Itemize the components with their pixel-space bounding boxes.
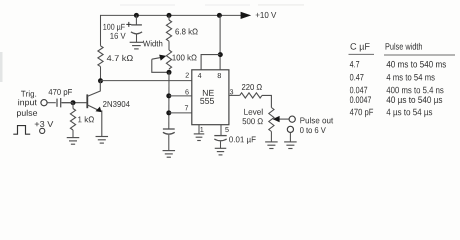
label 2N3904	[103, 101, 130, 107]
wire: rail to 6.8k	[168, 15, 170, 20]
wire: left column from rail to 4.7k	[100, 15, 102, 46]
ground under return terminal	[284, 142, 297, 149]
label NE	[203, 90, 214, 96]
capacitor C2 timing cap C	[163, 129, 175, 150]
transistor Q1 2N3904	[61, 81, 102, 136]
label Level	[244, 109, 262, 115]
trigger pulse waveform icon	[13, 126, 30, 135]
label 16 V	[110, 33, 125, 39]
table header Pulse width	[386, 43, 422, 50]
table header C µF	[351, 43, 370, 51]
wire: jog to pin 4	[201, 55, 220, 70]
capacitor C4 0.01uF on pin 5	[214, 136, 226, 148]
wire: wiper return loop to pot bottom	[152, 59, 169, 72]
label 100 kΩ	[172, 54, 196, 60]
table row 0.047	[350, 87, 444, 94]
label 0.01 µF	[229, 136, 256, 144]
pin label 2	[186, 73, 189, 78]
potentiometer R3 100 kΩ body	[166, 50, 171, 69]
label 0 to 6 V	[300, 127, 326, 133]
label 4.7 kΩ	[107, 55, 133, 61]
ground under timing cap C	[163, 151, 176, 158]
resistor R1 4.7 kΩ	[98, 46, 103, 67]
junction dot on rail at 6.8k branch	[167, 13, 172, 18]
wire: pin 6 lead	[169, 95, 192, 97]
ground under 0.01uF	[215, 148, 227, 155]
label 220 Ω	[242, 84, 262, 90]
pin label 5	[225, 127, 228, 132]
wire: return terminal to ground	[289, 133, 291, 142]
label Trig.	[21, 91, 36, 99]
node dot at pin 7 tap	[166, 110, 171, 115]
label 1 kΩ	[78, 116, 94, 122]
wire: level pot to ground	[270, 132, 272, 142]
pin label 8	[218, 73, 221, 78]
node dot: base junction	[71, 100, 76, 105]
terminal circle under +3V	[40, 128, 45, 133]
wire: 220 to level pot	[262, 95, 271, 107]
wire: pin 5 stem	[220, 125, 222, 136]
label input	[18, 99, 37, 107]
pin label 3	[230, 89, 233, 94]
wire: pin 7 lead	[169, 112, 192, 114]
node dot at pin 6 tap	[166, 93, 171, 98]
pin label 6	[185, 89, 188, 94]
pin label 4	[198, 73, 202, 78]
junction dot on rail at 100uF branch	[134, 13, 139, 18]
wire: +10V supply rail	[101, 14, 243, 16]
ground under pin 1	[194, 134, 205, 141]
table header underline right	[384, 54, 455, 56]
label +3 V	[35, 121, 54, 127]
polarity + of C1	[126, 22, 131, 27]
terminal: pulse out circle	[289, 116, 295, 122]
wire: collector pin2 wire to IC	[101, 80, 192, 82]
label pulse	[17, 110, 37, 118]
label 555	[200, 98, 214, 104]
potentiometer R6 Level 500 Ω	[269, 108, 274, 132]
label 100 uF	[103, 24, 125, 32]
label Pulse out	[300, 117, 333, 123]
ground under emitter	[96, 137, 109, 144]
label Width	[143, 40, 162, 46]
wire: 6.8k to 100k pot	[168, 41, 170, 50]
node: collector junction dot	[98, 78, 103, 83]
node: pot bottom junction dot	[167, 70, 172, 75]
capacitor C3 470 pF	[57, 98, 61, 107]
ground under 1k	[67, 138, 80, 145]
label 470 pF	[49, 89, 73, 97]
+10 V supply arrow	[241, 12, 252, 19]
wire: 4.7k bottom to collector node	[100, 67, 102, 81]
table row 0.0047	[350, 96, 442, 104]
wire: pin 3 lead	[229, 94, 240, 96]
resistor R2 6.8 kΩ	[166, 20, 171, 41]
terminal: trig input circle	[41, 100, 47, 106]
wire: terminal to 470pF	[47, 102, 56, 104]
label 500 Ω	[243, 118, 263, 124]
table row 0.47	[350, 74, 435, 81]
label +10 V	[256, 12, 277, 18]
resistor R4 1 kΩ	[72, 103, 74, 109]
table header underline left	[349, 53, 375, 55]
wiper of level pot with arrow	[273, 116, 290, 122]
resistor R5 220 Ω	[240, 93, 262, 98]
terminal: 0-6V return circle	[287, 126, 293, 132]
label 6.8 kΩ	[175, 28, 197, 34]
ground under level pot	[265, 142, 278, 149]
wire: pin 1 stem	[198, 125, 200, 134]
node dot on pin8 wire	[218, 52, 223, 57]
op IC U1 NE555 box	[192, 70, 229, 125]
table row 4.7	[350, 61, 446, 68]
pin label 1	[200, 127, 203, 132]
pin label 7	[185, 105, 188, 110]
capacitor C1 100uF 16V electrolytic	[131, 25, 142, 42]
table row 470 pF	[350, 109, 432, 117]
wire: rail to 100uF cap	[135, 15, 137, 25]
ground under C1	[130, 42, 144, 49]
wire: 470pF to base node	[62, 102, 73, 104]
wire: pin 8 from rail	[217, 13, 222, 18]
wiper arrow of 100k pot	[152, 55, 167, 61]
wire: timing node vertical down to cap C	[168, 72, 170, 129]
